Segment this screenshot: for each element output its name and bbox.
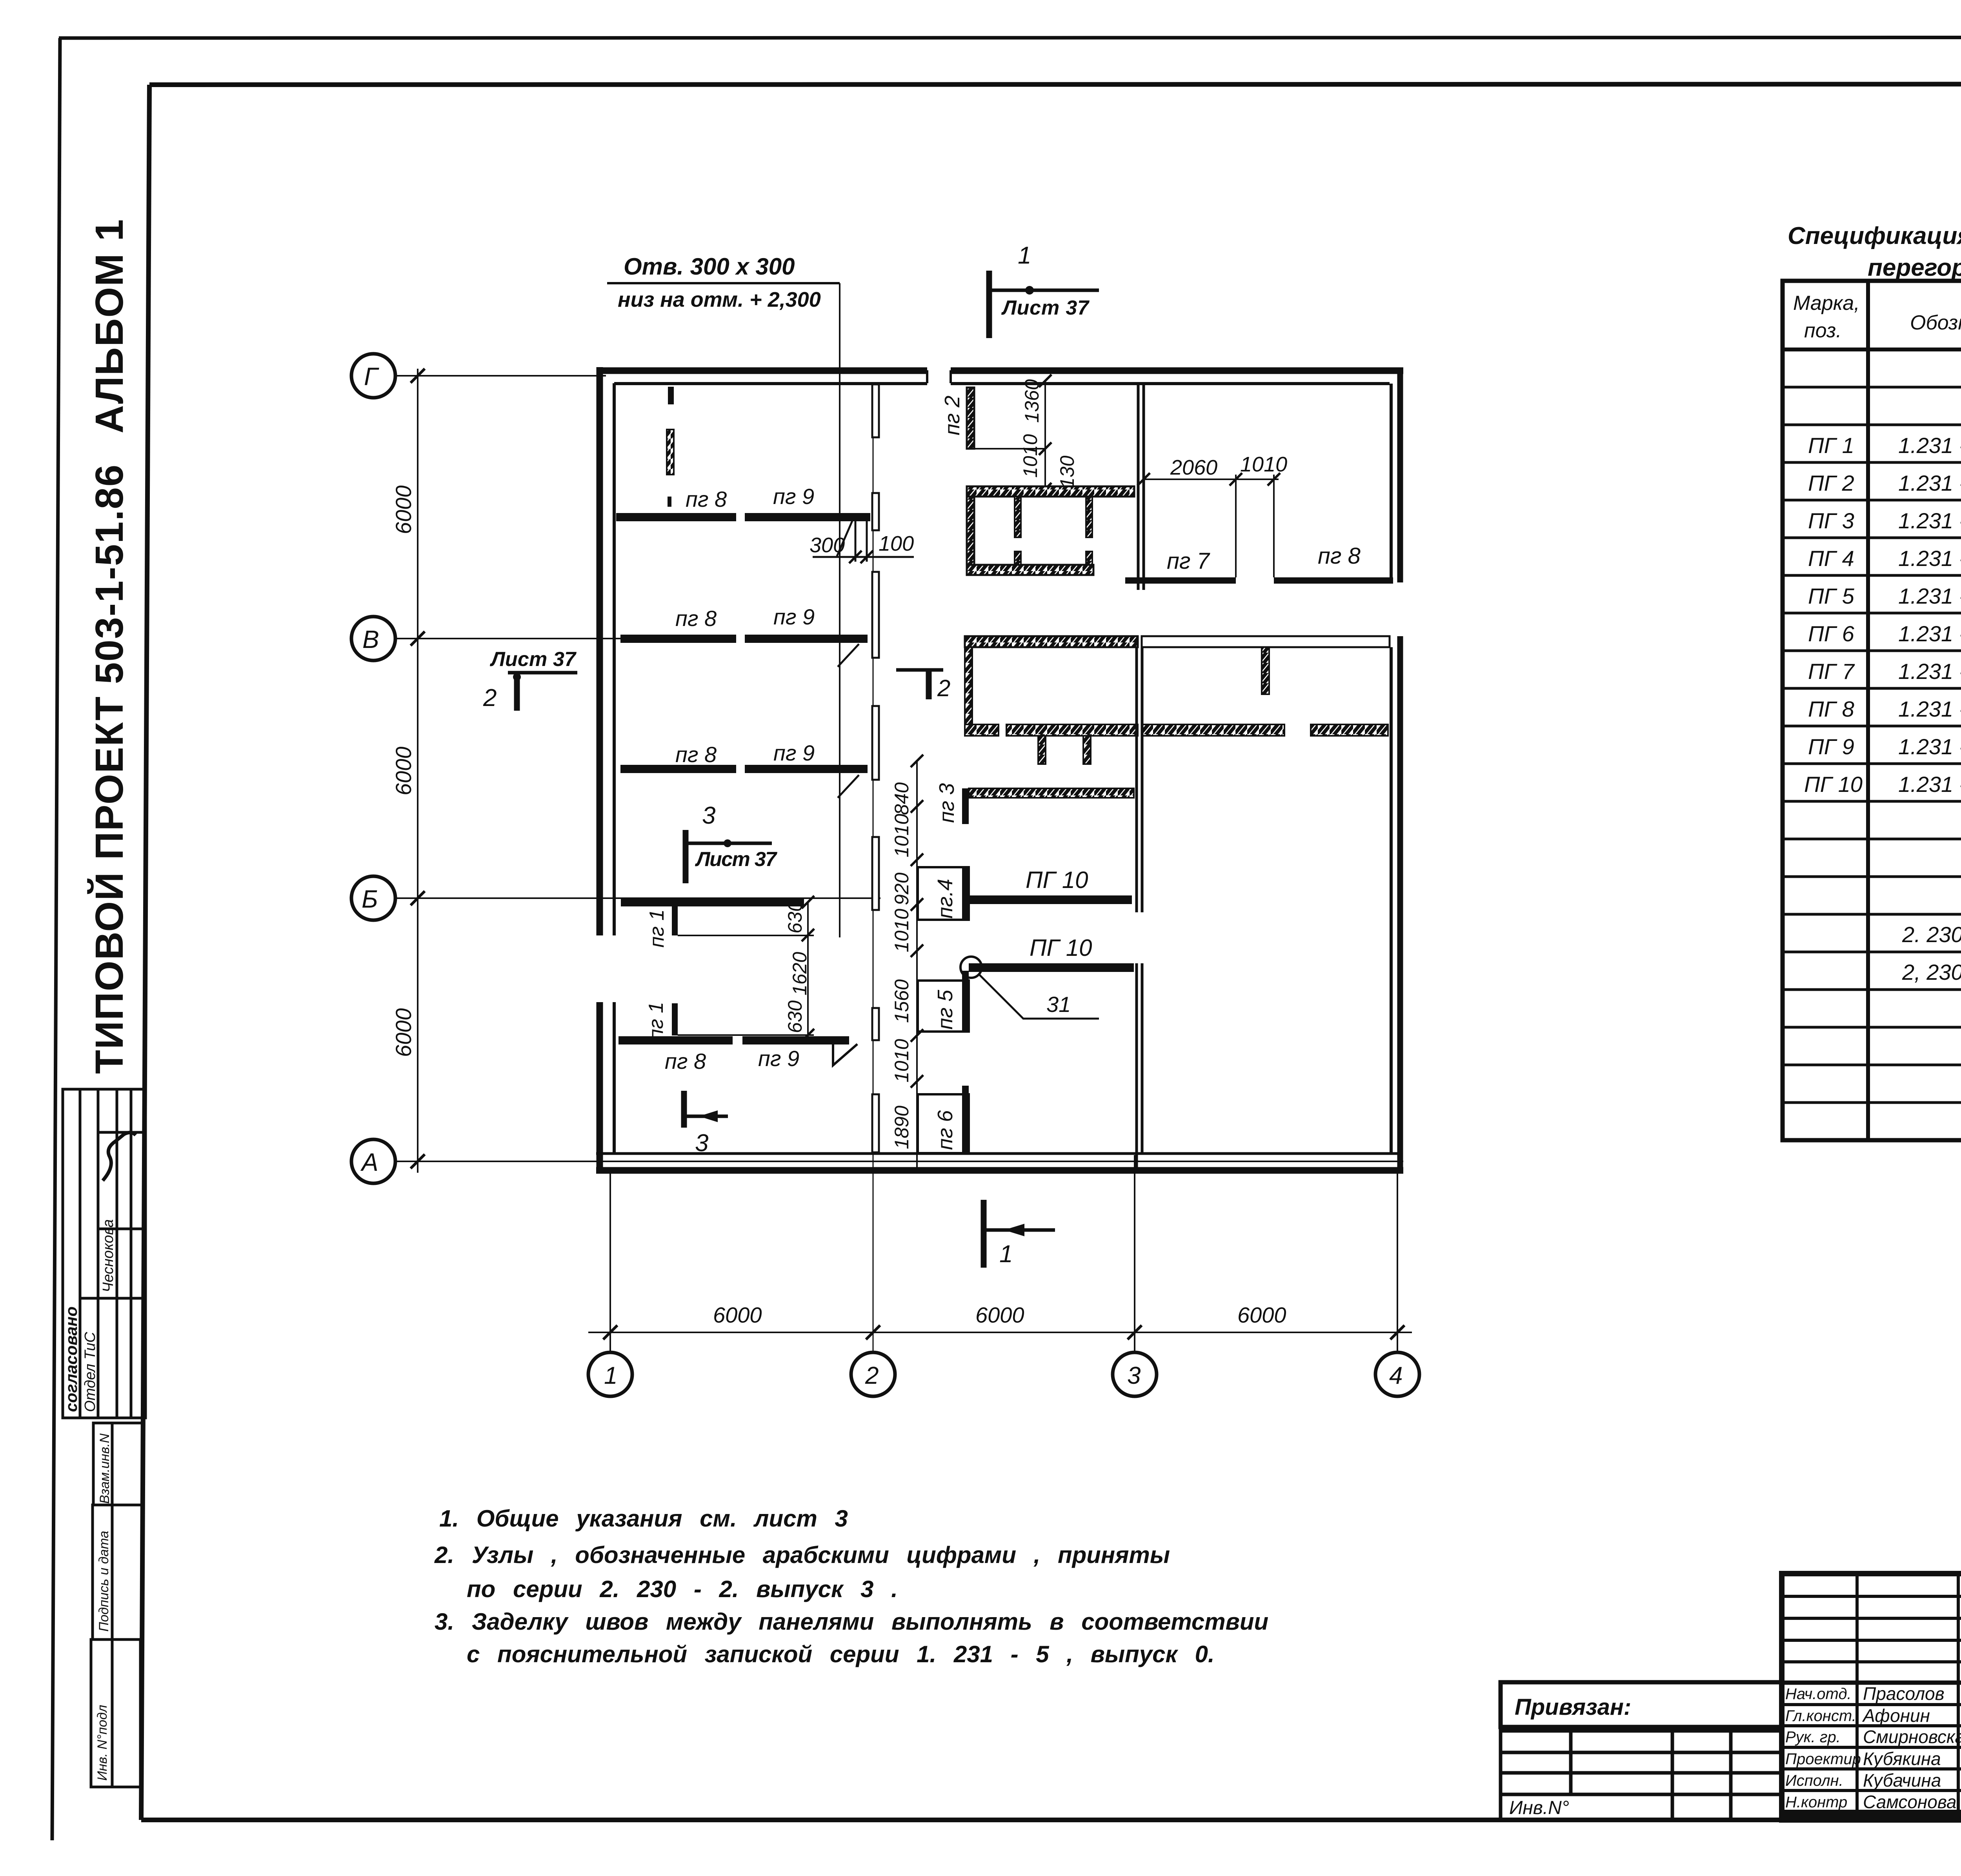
svg-text:2: 2 bbox=[865, 1362, 879, 1389]
bottom dimension line bbox=[588, 1332, 1412, 1333]
top wall left block bbox=[597, 368, 927, 374]
signature squiggle bbox=[103, 1132, 136, 1181]
svg-text:2: 2 bbox=[483, 684, 497, 711]
svg-text:поз.: поз. bbox=[1804, 319, 1842, 342]
dim chain 630/1620/630 bbox=[807, 902, 809, 1041]
svg-text:низ на отм. + 2,300: низ на отм. + 2,300 bbox=[618, 288, 821, 311]
axis В line bbox=[395, 638, 622, 639]
column circle 2 bbox=[851, 1352, 895, 1396]
svg-text:1560: 1560 bbox=[891, 979, 913, 1023]
svg-text:2060: 2060 bbox=[1170, 456, 1217, 479]
role labels bbox=[1785, 1685, 1861, 1811]
svg-text:Лист 37: Лист 37 bbox=[695, 848, 777, 871]
inner frame top strip line bbox=[149, 84, 1961, 85]
svg-text:ПГ 5: ПГ 5 bbox=[1808, 584, 1855, 608]
center corridor wall lower bbox=[1135, 963, 1138, 1170]
svg-text:пг 2: пг 2 bbox=[940, 396, 964, 435]
partition ПГ10 upper bbox=[969, 895, 1132, 904]
svg-text:Проектир: Проектир bbox=[1785, 1750, 1861, 1768]
right exterior wall upper bbox=[1397, 371, 1403, 582]
svg-text:пг 1: пг 1 bbox=[646, 909, 668, 948]
svg-text:1010: 1010 bbox=[891, 909, 913, 952]
dim 2060/1010 bbox=[1144, 479, 1279, 480]
inner frame bottom bbox=[141, 1818, 1961, 1822]
svg-text:Прасолов: Прасолов bbox=[1863, 1683, 1945, 1704]
svg-text:1360: 1360 bbox=[1021, 379, 1043, 423]
left exterior wall upper bbox=[597, 367, 603, 935]
bottom dim ticks bbox=[603, 1325, 1404, 1339]
svg-text:1.231 - 5 вып. 1: 1.231 - 5 вып. 1 bbox=[1898, 508, 1961, 533]
svg-text:Отв. 300 х 300: Отв. 300 х 300 bbox=[624, 253, 795, 280]
svg-text:Взам.инв.N: Взам.инв.N bbox=[97, 1433, 112, 1504]
panel пг.4 bbox=[918, 867, 969, 920]
privyazan block bbox=[1501, 1682, 1782, 1727]
svg-text:1.231 - 5 вып. 1: 1.231 - 5 вып. 1 bbox=[1898, 584, 1961, 608]
svg-text:4: 4 bbox=[1389, 1362, 1403, 1389]
svg-text:пг 8: пг 8 bbox=[686, 487, 727, 511]
svg-text:согласовано: согласовано bbox=[62, 1306, 80, 1412]
panel пг3 bbox=[969, 788, 1134, 798]
svg-text:А: А bbox=[360, 1148, 378, 1176]
svg-text:пг.4: пг.4 bbox=[933, 879, 957, 919]
svg-text:Гл.конст.: Гл.конст. bbox=[1785, 1707, 1856, 1725]
partition on axis Б bbox=[621, 898, 804, 906]
svg-text:1.231 - 5 вып. 1: 1.231 - 5 вып. 1 bbox=[1898, 433, 1961, 458]
column circle 4 bbox=[1375, 1352, 1419, 1396]
svg-text:пг 5: пг 5 bbox=[933, 990, 957, 1030]
left dimension line bbox=[417, 369, 418, 1173]
smudged bottom row bbox=[1784, 1813, 1961, 1821]
svg-text:1.231 - 5 вып. 1: 1.231 - 5 вып. 1 bbox=[1898, 734, 1961, 759]
svg-text:с пояснительной запиской сер: с пояснительной запиской серии 1. 231 - … bbox=[467, 1641, 1215, 1667]
svg-text:ПГ 4: ПГ 4 bbox=[1808, 546, 1854, 571]
svg-text:6000: 6000 bbox=[391, 485, 416, 534]
svg-text:Привязан:: Привязан: bbox=[1515, 1694, 1631, 1720]
svg-text:1.231 - 5 вып. 1: 1.231 - 5 вып. 1 bbox=[1898, 471, 1961, 495]
main stamp outline bbox=[1782, 1574, 1961, 1820]
svg-text:2. Узлы , обозначенные арабс: 2. Узлы , обозначенные арабскими цифрами… bbox=[434, 1542, 1170, 1568]
axis А line bbox=[395, 1161, 1403, 1162]
svg-text:пг 9: пг 9 bbox=[758, 1046, 799, 1071]
inner frame left bbox=[141, 85, 149, 1820]
svg-text:130: 130 bbox=[1056, 455, 1078, 488]
section mark 2 right bbox=[896, 670, 950, 701]
svg-text:630: 630 bbox=[784, 1000, 806, 1033]
dim chain right of axis2 bbox=[916, 761, 918, 1173]
svg-text:ПГ 1: ПГ 1 bbox=[1808, 433, 1854, 458]
svg-text:ПГ 8: ПГ 8 bbox=[1808, 697, 1854, 721]
svg-text:3: 3 bbox=[702, 802, 715, 829]
svg-text:Б: Б bbox=[362, 885, 378, 913]
empty top rows bbox=[1782, 1595, 1961, 1598]
svg-text:Кубякина: Кубякина bbox=[1863, 1749, 1941, 1769]
svg-text:1620: 1620 bbox=[789, 952, 811, 995]
left signature grid verticals bbox=[1782, 1574, 1961, 1820]
axis Б line bbox=[395, 897, 880, 899]
svg-text:Инв. N°подл: Инв. N°подл bbox=[95, 1705, 110, 1781]
svg-text:1.231 - 5 вып. 1: 1.231 - 5 вып. 1 bbox=[1898, 621, 1961, 646]
axis circle Г bbox=[351, 354, 395, 398]
vzam inv block bbox=[91, 1423, 143, 1787]
panel пг2 hatched bbox=[967, 388, 974, 449]
partition пг7 bbox=[1125, 577, 1236, 584]
svg-text:2. 230 - 2. вып. 3: 2. 230 - 2. вып. 3 bbox=[1902, 922, 1961, 947]
axis circle В bbox=[351, 617, 395, 661]
svg-text:Спецификация к схеме располо: Спецификация к схеме расположения панеле… bbox=[1788, 222, 1961, 249]
svg-text:Марка,: Марка, bbox=[1793, 292, 1860, 315]
svg-text:1: 1 bbox=[999, 1241, 1013, 1268]
svg-text:1: 1 bbox=[1018, 242, 1031, 269]
svg-text:1.231 - 5 вып. 1: 1.231 - 5 вып. 1 bbox=[1898, 772, 1961, 797]
privyazan grid bbox=[1501, 1731, 1782, 1820]
partition пг8 right bbox=[1274, 577, 1393, 584]
svg-text:100: 100 bbox=[879, 532, 914, 555]
axis circle А bbox=[351, 1139, 395, 1183]
svg-text:Лист 37: Лист 37 bbox=[1001, 297, 1090, 319]
svg-text:ПГ 6: ПГ 6 bbox=[1808, 621, 1855, 646]
svg-text:2: 2 bbox=[937, 675, 950, 701]
partition ПГ10 lower bbox=[969, 963, 1134, 972]
svg-text:3: 3 bbox=[1127, 1362, 1141, 1389]
column circle 1 bbox=[588, 1352, 632, 1396]
svg-text:1: 1 bbox=[604, 1362, 617, 1389]
svg-text:пг 6: пг 6 bbox=[933, 1110, 957, 1150]
svg-text:1.231 - 5 вып. 1: 1.231 - 5 вып. 1 bbox=[1898, 659, 1961, 684]
section mark 3 bottom bbox=[684, 1091, 728, 1157]
door flag row5 bbox=[833, 1044, 857, 1065]
hole reference vertical line bbox=[839, 283, 840, 937]
svg-text:Подпись и дата: Подпись и дата bbox=[96, 1531, 111, 1632]
svg-text:Самсонова: Самсонова bbox=[1863, 1792, 1956, 1812]
svg-text:пг 8: пг 8 bbox=[1318, 543, 1361, 569]
left hatched wall В-room bbox=[965, 647, 972, 725]
node circle 31 bbox=[960, 957, 982, 978]
column circle 3 bbox=[1113, 1352, 1157, 1396]
svg-text:Н.контр: Н.контр bbox=[1785, 1794, 1847, 1811]
svg-text:1.231 - 5 вып. 1: 1.231 - 5 вып. 1 bbox=[1898, 546, 1961, 571]
svg-text:по серии 2. 230 - 2. выпуск: по серии 2. 230 - 2. выпуск 3 . bbox=[467, 1576, 898, 1602]
section mark 1 bottom bbox=[984, 1200, 1055, 1268]
svg-text:Г: Г bbox=[364, 362, 379, 391]
partition ПГ9 row5 bbox=[742, 1036, 849, 1044]
table body text bbox=[1804, 357, 1961, 984]
svg-text:6000: 6000 bbox=[391, 746, 416, 795]
header texts bbox=[1793, 292, 1961, 342]
partition ПГ8 row3 bbox=[620, 765, 736, 773]
left exterior wall lower bbox=[597, 1002, 603, 1173]
partition ПГ9 row1 bbox=[745, 513, 870, 521]
svg-text:1.231 - 5 вып. 1: 1.231 - 5 вып. 1 bbox=[1898, 697, 1961, 721]
section mark 2 left bbox=[483, 648, 577, 711]
svg-text:Лист 37: Лист 37 bbox=[489, 648, 577, 671]
svg-text:1010: 1010 bbox=[891, 1039, 913, 1083]
svg-text:ТИПОВОЙ ПРОЕКТ 503-1-51.86: ТИПОВОЙ ПРОЕКТ 503-1-51.86 bbox=[87, 464, 131, 1074]
svg-text:ПГ 9: ПГ 9 bbox=[1808, 734, 1854, 759]
upper room hatched walls bbox=[967, 486, 1134, 497]
svg-text:2, 230 - 2. вып. 3: 2, 230 - 2. вып. 3 bbox=[1902, 960, 1961, 984]
axis circle Б bbox=[351, 876, 395, 920]
bottom column extension lines bbox=[609, 1174, 611, 1352]
signature rows bbox=[1782, 1681, 1961, 1685]
svg-text:Афонин: Афонин bbox=[1862, 1705, 1930, 1726]
partition ПГ8 row1 bbox=[616, 513, 736, 521]
panel пг5 bbox=[918, 981, 969, 1032]
center corridor wall middle bbox=[1135, 647, 1138, 912]
center corridor wall upper bbox=[1137, 383, 1140, 590]
svg-text:1. Общие указания см. л: 1. Общие указания см. лист 3 bbox=[439, 1505, 848, 1532]
svg-text:пг 8: пг 8 bbox=[675, 742, 717, 767]
partition ПГ9 row3 bbox=[745, 765, 868, 773]
svg-text:6000: 6000 bbox=[1237, 1303, 1286, 1327]
svg-text:Инв.N°: Инв.N° bbox=[1509, 1798, 1569, 1818]
svg-text:АЛЬБОМ 1: АЛЬБОМ 1 bbox=[87, 218, 131, 433]
partition ПГ8 row2 bbox=[620, 635, 736, 643]
axis Г line bbox=[395, 375, 606, 377]
svg-text:31: 31 bbox=[1046, 992, 1071, 1017]
svg-text:ПГ 3: ПГ 3 bbox=[1808, 508, 1854, 533]
bottom exterior wall bbox=[596, 1167, 1403, 1174]
svg-text:1010: 1010 bbox=[1019, 434, 1041, 478]
section mark 3 mid bbox=[686, 802, 777, 883]
panel пг1 lower bbox=[672, 1003, 678, 1035]
svg-text:пг 1: пг 1 bbox=[645, 1002, 668, 1040]
svg-text:300: 300 bbox=[810, 533, 845, 557]
svg-text:630: 630 bbox=[784, 901, 806, 933]
svg-text:6000: 6000 bbox=[713, 1303, 762, 1327]
partition ПГ8 row5 bbox=[618, 1036, 733, 1044]
section mark 1 top bbox=[989, 242, 1099, 338]
svg-text:1890: 1890 bbox=[891, 1106, 913, 1149]
svg-text:ПГ 2: ПГ 2 bbox=[1808, 471, 1854, 495]
svg-text:Обозначение.: Обозначение. bbox=[1910, 311, 1961, 334]
svg-text:перегородок в осях 1-4: перегородок в осях 1-4 bbox=[1868, 254, 1961, 281]
svg-text:3. Заделку швов между панел: 3. Заделку швов между панелями выполнять… bbox=[435, 1609, 1268, 1635]
svg-text:пг 9: пг 9 bbox=[773, 604, 815, 629]
svg-text:пг 9: пг 9 bbox=[773, 741, 815, 765]
mid hatched band bbox=[965, 724, 999, 736]
outer border left bbox=[52, 38, 60, 1840]
svg-text:Отдел ТиС: Отдел ТиС bbox=[82, 1332, 98, 1412]
svg-text:Чеснокова: Чеснокова bbox=[100, 1219, 116, 1292]
svg-text:840: 840 bbox=[891, 782, 913, 815]
svg-text:1010: 1010 bbox=[1240, 453, 1287, 476]
svg-text:пг 8: пг 8 bbox=[665, 1049, 706, 1074]
partition ПГ9 row2 bbox=[745, 635, 868, 643]
svg-text:В: В bbox=[362, 625, 379, 653]
interior hatched pier left block bbox=[668, 387, 674, 404]
svg-text:ПГ 10: ПГ 10 bbox=[1030, 935, 1092, 961]
svg-text:6000: 6000 bbox=[391, 1008, 416, 1057]
svg-text:Смирновская: Смирновская bbox=[1863, 1727, 1961, 1747]
svg-text:ПГ 10: ПГ 10 bbox=[1804, 772, 1863, 797]
svg-text:ПГ 7: ПГ 7 bbox=[1808, 659, 1855, 684]
svg-text:1010: 1010 bbox=[891, 814, 913, 857]
outer border top bbox=[59, 37, 1961, 38]
dim ticks on left line bbox=[411, 369, 425, 1168]
names bbox=[1862, 1683, 1961, 1812]
svg-text:Нач.отд.: Нач.отд. bbox=[1785, 1685, 1852, 1703]
svg-text:Исполн.: Исполн. bbox=[1785, 1772, 1843, 1789]
row В hatched band bbox=[965, 636, 1138, 647]
table grid bbox=[1783, 281, 1961, 1140]
top wall right block bbox=[951, 368, 1403, 374]
row lines bbox=[1783, 386, 1961, 389]
panel пг1 upper bbox=[672, 905, 678, 935]
panel пг6 bbox=[918, 1094, 969, 1153]
corridor door jamb stubs bbox=[872, 384, 879, 1152]
svg-text:пг 7: пг 7 bbox=[1167, 548, 1211, 574]
svg-text:пг 3: пг 3 bbox=[935, 783, 959, 823]
svg-text:пг 8: пг 8 bbox=[675, 606, 717, 631]
svg-text:920: 920 bbox=[891, 872, 913, 905]
soglasovano stamp block bbox=[63, 1089, 146, 1418]
svg-text:ПГ 10: ПГ 10 bbox=[1026, 867, 1088, 893]
svg-text:пг 9: пг 9 bbox=[773, 484, 814, 509]
door dim 300/100 bbox=[855, 521, 857, 562]
svg-text:6000: 6000 bbox=[975, 1303, 1024, 1327]
svg-text:Кубачина: Кубачина bbox=[1863, 1770, 1941, 1790]
svg-text:Рук. гр.: Рук. гр. bbox=[1785, 1729, 1841, 1746]
right exterior wall lower bbox=[1397, 636, 1403, 1173]
